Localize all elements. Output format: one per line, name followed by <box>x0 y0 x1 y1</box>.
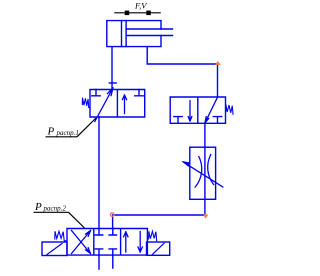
svg-text:распр.2: распр.2 <box>43 204 67 212</box>
svg-text:P: P <box>47 126 55 138</box>
svg-text:распр.1: распр.1 <box>56 129 79 137</box>
svg-text:P: P <box>34 201 42 213</box>
svg-text:F,V: F,V <box>134 1 148 11</box>
